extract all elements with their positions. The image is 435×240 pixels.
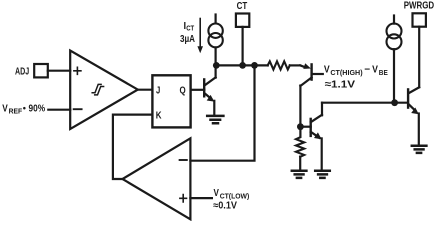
comparator A1 with hysteresis xyxy=(70,51,138,130)
svg-text:REF: REF xyxy=(9,106,23,115)
wire CT pad down to bus xyxy=(242,27,244,66)
svg-text:≈1.1V: ≈1.1V xyxy=(325,80,356,91)
svg-text:CT: CT xyxy=(186,24,194,33)
wire comparator A2 - input to CT node xyxy=(190,65,254,160)
wire K input to comparator A2 output xyxy=(113,115,152,179)
transistor Q4 (NPN) xyxy=(311,103,322,171)
svg-text:PWRGD: PWRGD xyxy=(404,1,434,12)
svg-text:3µA: 3µA xyxy=(180,34,195,45)
transistor Q5 (NPN) xyxy=(408,87,419,145)
flip-flop U1 (J-K) xyxy=(152,75,190,127)
wire R1 to Q2 emitter xyxy=(290,64,300,66)
svg-text:V: V xyxy=(324,65,330,76)
svg-text:≈0.1V: ≈0.1V xyxy=(213,201,237,212)
svg-text:V: V xyxy=(2,103,8,114)
transistor Q1 (NPN) xyxy=(204,65,215,115)
current source ICT xyxy=(208,15,222,66)
label VCT(LOW) 0.1V xyxy=(213,188,250,212)
junction at A2 wire xyxy=(251,62,258,69)
wire U1 Q output to Q1 base xyxy=(191,89,205,91)
svg-text:Q: Q xyxy=(180,86,186,97)
wire Q2 base stub xyxy=(312,73,323,75)
svg-text:ADJ: ADJ xyxy=(15,67,29,78)
label ICT 3uA xyxy=(180,21,195,45)
svg-text:V: V xyxy=(372,65,378,76)
svg-text:CT: CT xyxy=(237,1,248,12)
svg-text:V: V xyxy=(214,188,220,199)
comparator A2 xyxy=(123,138,191,219)
pad PWRGD xyxy=(413,13,426,26)
pad CT xyxy=(236,14,249,27)
svg-text:J: J xyxy=(156,86,160,97)
ground below R2 xyxy=(292,171,307,178)
junction at CT pad wire xyxy=(239,62,246,69)
wire R2 to ground xyxy=(299,157,301,171)
wire comparator A2 + input stub xyxy=(190,197,212,199)
wire comparator A1 output to J input xyxy=(138,89,153,91)
svg-text:•: • xyxy=(23,103,26,113)
transistor Q2 (PNP) xyxy=(300,63,311,136)
wire Q4 collector to Q5 base xyxy=(322,102,408,104)
arrow for ICT direction xyxy=(197,19,203,54)
svg-text:K: K xyxy=(156,111,162,122)
label VREF x 90% xyxy=(2,103,45,115)
svg-text:CT(HIGH): CT(HIGH) xyxy=(330,68,363,77)
resistor R1 xyxy=(268,61,290,69)
ground below Q1 xyxy=(207,116,223,123)
wire Q4 base xyxy=(300,126,310,128)
ground below Q5 xyxy=(412,146,427,153)
wire CT bus xyxy=(216,64,268,66)
wire VREF to comparator - input xyxy=(48,109,70,111)
svg-text:−: − xyxy=(364,65,370,76)
svg-text:90%: 90% xyxy=(29,103,46,114)
resistor R2 xyxy=(296,137,304,156)
junction at current source and Q5 base xyxy=(391,99,398,106)
ground below Q4 emitter xyxy=(315,171,330,178)
current source I2 xyxy=(387,16,402,103)
svg-text:BE: BE xyxy=(379,68,388,77)
wire PWRGD pad to Q5 collector xyxy=(418,27,420,87)
svg-text:CT(LOW): CT(LOW) xyxy=(220,191,250,200)
wire ADJ to comparator + input xyxy=(48,70,70,72)
pad ADJ xyxy=(34,64,48,77)
junction at Q1 collector xyxy=(213,62,220,69)
junction Q4 base node xyxy=(297,123,304,130)
label VCT(HIGH) - VBE 1.1V xyxy=(324,65,388,91)
